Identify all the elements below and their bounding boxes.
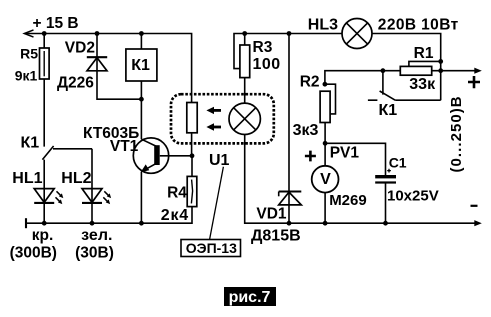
svg-text:+ 15 В: + 15 В <box>33 15 79 32</box>
svg-text:HL1: HL1 <box>12 170 42 187</box>
svg-text:PV1: PV1 <box>330 145 360 162</box>
svg-text:R1: R1 <box>414 45 434 62</box>
svg-text:3к3: 3к3 <box>293 122 319 139</box>
svg-text:зел.: зел. <box>81 227 112 244</box>
svg-text:R2: R2 <box>300 74 320 91</box>
svg-text:V: V <box>320 171 331 188</box>
svg-text:ОЭП-13: ОЭП-13 <box>186 240 237 256</box>
svg-text:HL3: HL3 <box>308 16 338 33</box>
svg-text:R5: R5 <box>20 46 38 62</box>
svg-text:(0...250)В: (0...250)В <box>448 95 465 172</box>
svg-text:9к1: 9к1 <box>15 68 38 84</box>
svg-text:VT1: VT1 <box>110 138 139 155</box>
svg-text:R3: R3 <box>253 39 273 56</box>
svg-text:(300В): (300В) <box>10 245 57 262</box>
svg-text:К1: К1 <box>379 102 398 119</box>
svg-text:VD2: VD2 <box>65 40 95 57</box>
svg-text:рис.7: рис.7 <box>229 289 271 306</box>
svg-text:Д226: Д226 <box>57 74 94 91</box>
svg-text:Д815В: Д815В <box>251 228 301 245</box>
svg-text:C1: C1 <box>389 154 407 170</box>
svg-text:2к4: 2к4 <box>161 207 189 224</box>
svg-text:100: 100 <box>253 56 281 73</box>
svg-text:HL2: HL2 <box>61 170 91 187</box>
svg-text:(30В): (30В) <box>75 245 114 262</box>
svg-text:R4: R4 <box>167 185 187 202</box>
svg-text:U1: U1 <box>209 152 230 169</box>
svg-text:кр.: кр. <box>32 227 54 244</box>
svg-text:К1: К1 <box>21 135 40 152</box>
svg-text:VD1: VD1 <box>256 205 287 222</box>
svg-text:10х25V: 10х25V <box>387 188 439 205</box>
svg-text:К1: К1 <box>131 57 150 74</box>
svg-text:М269: М269 <box>329 192 367 209</box>
svg-text:33к: 33к <box>409 76 436 93</box>
svg-text:220В 10Вт: 220В 10Вт <box>378 16 459 33</box>
